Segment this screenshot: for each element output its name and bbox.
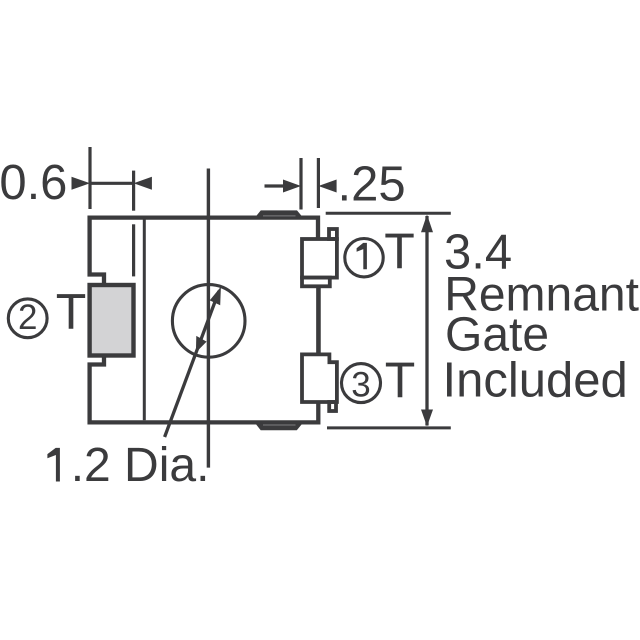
rotor circle	[172, 285, 245, 358]
svg-text:T: T	[384, 223, 415, 279]
0.6 arrowhead left	[72, 177, 91, 190]
inner vertical line	[143, 219, 146, 420]
.25 extension line right	[317, 158, 320, 208]
3.4 extension line bottom	[327, 426, 451, 429]
0.6 extension line right (upper)	[132, 171, 135, 211]
pin 1 circle	[345, 239, 383, 277]
0.6 extension line left	[88, 147, 91, 209]
0.6 dimension line	[90, 182, 134, 185]
remnant gate bump bottom	[255, 423, 302, 430]
pin 1 number	[357, 243, 367, 269]
terminal 1 bottom lip	[302, 278, 330, 287]
.25 extension line left	[299, 158, 302, 210]
diameter arrowhead upper	[210, 287, 221, 306]
3.4 arrowhead up	[421, 215, 433, 233]
0.6 arrowhead right	[134, 177, 152, 190]
terminal 1 tab	[329, 229, 337, 239]
terminal 2 pad (gray)	[90, 285, 134, 356]
.25 dimension tail	[265, 184, 285, 187]
diameter arrowhead lower	[196, 336, 207, 353]
svg-text:.2 Dia.: .2 Dia.	[71, 439, 210, 492]
terminal 1 main box	[302, 239, 337, 278]
3.4 dimension line vertical	[425, 216, 428, 426]
terminal 3 outline	[302, 354, 337, 402]
svg-text:.25: .25	[338, 158, 406, 212]
svg-text:0.6: 0.6	[0, 156, 67, 210]
.25 arrowhead left	[283, 180, 301, 193]
dimension text 1.2 Dia.	[47, 448, 60, 482]
pin 3 circle	[342, 364, 381, 403]
wire terminal1-terminal3	[316, 286, 321, 354]
0.6 extension line right (lower)	[132, 224, 135, 276]
terminal 3 tab	[329, 402, 336, 411]
3.4 arrowhead down	[421, 410, 433, 427]
remnant gate bump top	[255, 210, 303, 217]
gate sliver bottom	[263, 424, 296, 426]
svg-text:T: T	[385, 352, 416, 408]
svg-text:2: 2	[18, 298, 37, 337]
svg-text:T: T	[56, 284, 87, 340]
centerline through rotor	[207, 169, 210, 468]
.25 arrowhead right	[318, 180, 336, 193]
svg-text:Included: Included	[443, 354, 628, 408]
pin 2 circle	[8, 299, 47, 338]
body outline top-left	[90, 218, 318, 285]
svg-text:3: 3	[351, 366, 370, 405]
3.4 extension line top	[326, 212, 451, 215]
body outline bottom-left	[90, 356, 319, 423]
diameter leader line	[165, 291, 219, 437]
gate sliver top	[263, 215, 296, 217]
